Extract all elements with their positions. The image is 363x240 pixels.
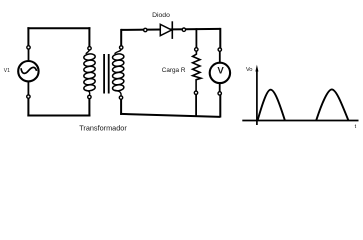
wire bottom rail primary loop — [27, 115, 90, 117]
wire resistor branch top — [195, 28, 197, 47]
terminal resistor top — [195, 48, 198, 51]
terminal secondary coil bottom — [119, 96, 122, 99]
sine wave inside V1 — [21, 67, 37, 73]
wire secondary bottom rail — [120, 114, 220, 117]
diode triangle — [160, 24, 171, 35]
waveform hump 1 — [258, 90, 285, 121]
terminal V1 bottom — [27, 95, 30, 98]
svg-text:V1: V1 — [4, 68, 10, 74]
transformer primary coil stub bottom — [86, 90, 90, 95]
terminal diode cathode — [182, 28, 185, 31]
wire left vertical V1 top — [27, 27, 29, 46]
terminal V1 top — [27, 46, 30, 49]
transformer secondary coil stub bottom — [115, 90, 122, 96]
wire secondary left vertical bottom — [120, 99, 122, 115]
wire resistor branch bottom — [195, 95, 197, 117]
graph y-axis — [256, 70, 258, 126]
svg-text:V: V — [217, 66, 224, 77]
svg-text:Transformador: Transformador — [79, 123, 127, 132]
terminal secondary coil top — [120, 46, 123, 49]
wire secondary left vertical top — [120, 29, 122, 46]
transformer secondary coil loops — [112, 53, 124, 91]
terminal voltmeter bottom — [218, 92, 221, 95]
transformer secondary coil stub top — [115, 49, 122, 54]
waveform hump 2 — [316, 89, 348, 120]
terminal voltmeter top — [218, 48, 221, 51]
transformer core line right — [108, 54, 110, 94]
wire voltmeter below circle — [219, 83, 221, 92]
wire primary coil top vertical — [88, 27, 90, 46]
AC source V1 — [18, 61, 38, 81]
wire voltmeter to circle — [219, 51, 221, 62]
voltmeter V circle — [210, 63, 230, 83]
svg-text:Vo: Vo — [246, 67, 252, 73]
wire top rail primary loop — [27, 27, 90, 29]
wire voltmeter branch bottom — [219, 95, 221, 118]
diode cathode bar — [171, 21, 173, 39]
graph x-axis — [242, 120, 358, 122]
terminal diode anode — [144, 28, 147, 31]
terminal primary coil top — [88, 47, 91, 50]
wire primary coil bottom vertical — [88, 99, 90, 117]
terminal resistor bottom — [194, 91, 197, 94]
resistor Carga R zigzag — [193, 51, 201, 91]
wire V1 to top terminal — [28, 49, 30, 61]
svg-text:Diodo: Diodo — [152, 12, 170, 19]
transformer primary coil loops — [83, 53, 95, 91]
terminal primary coil bottom — [88, 95, 91, 98]
svg-text:Carga R: Carga R — [162, 67, 186, 74]
transformer primary coil stub top — [86, 49, 90, 54]
graph y-axis arrowhead — [255, 65, 258, 72]
wire left vertical V1 bottom — [27, 98, 29, 116]
wire voltmeter branch top — [219, 28, 221, 48]
wire V1 to bottom terminal — [27, 81, 29, 95]
wire secondary top rail — [121, 29, 220, 30]
transformer core line left — [103, 54, 105, 94]
